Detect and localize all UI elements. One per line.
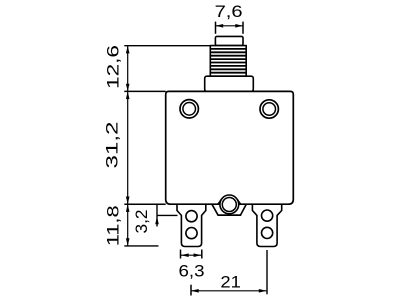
svg-text:6,3: 6,3 [179,262,205,280]
svg-text:11,8: 11,8 [104,205,122,246]
svg-text:21: 21 [220,274,241,292]
svg-text:7,6: 7,6 [215,3,243,21]
svg-text:3,2: 3,2 [133,210,151,234]
svg-text:12,6: 12,6 [104,45,122,89]
svg-text:31,2: 31,2 [103,122,121,169]
